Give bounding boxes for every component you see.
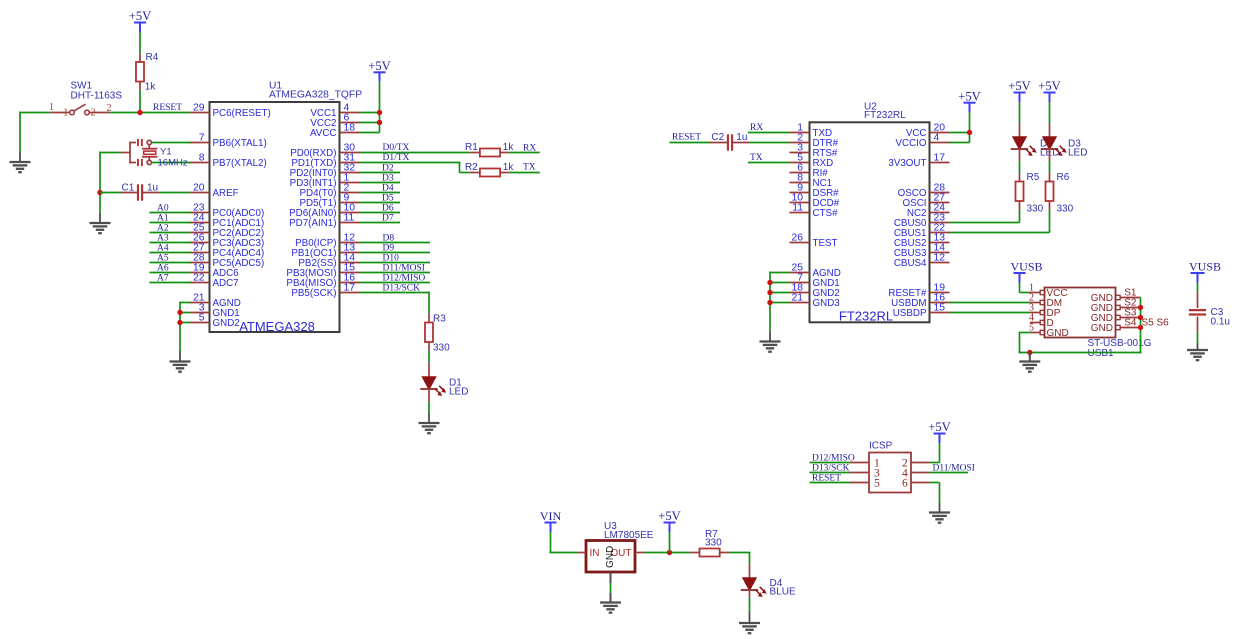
svg-text:8: 8 (199, 153, 205, 164)
svg-text:22: 22 (193, 273, 205, 284)
svg-text:S5 S6: S5 S6 (1142, 318, 1170, 329)
svg-text:330: 330 (1057, 204, 1074, 215)
svg-text:2: 2 (91, 108, 96, 119)
svg-text:D7: D7 (382, 213, 394, 223)
svg-text:C1: C1 (122, 182, 135, 193)
svg-text:AVCC: AVCC (310, 128, 337, 139)
svg-text:USBDP: USBDP (893, 308, 927, 319)
svg-text:20: 20 (193, 183, 205, 194)
svg-text:D11/MOSI: D11/MOSI (383, 263, 425, 273)
svg-text:26: 26 (791, 233, 803, 244)
svg-text:ADC7: ADC7 (213, 278, 239, 289)
svg-text:RESET: RESET (153, 103, 182, 113)
svg-text:D6: D6 (382, 203, 394, 213)
svg-text:D12/MISO: D12/MISO (383, 273, 426, 283)
svg-text:PD7(AIN1): PD7(AIN1) (289, 218, 336, 229)
svg-text:R6: R6 (1057, 172, 1070, 183)
svg-text:+5V: +5V (928, 420, 951, 434)
svg-text:16MHz: 16MHz (158, 158, 188, 169)
svg-text:LED: LED (449, 387, 468, 398)
svg-text:LM7805EE: LM7805EE (604, 530, 654, 541)
svg-text:D8: D8 (383, 233, 395, 243)
svg-text:0.1u: 0.1u (1211, 317, 1230, 328)
svg-text:LED: LED (1068, 148, 1087, 159)
svg-text:RX: RX (523, 144, 536, 154)
svg-text:21: 21 (791, 293, 803, 304)
svg-text:D13/SCK: D13/SCK (383, 283, 421, 293)
svg-text:ICSP: ICSP (869, 441, 893, 452)
svg-text:C2: C2 (711, 132, 724, 143)
svg-text:GND3: GND3 (813, 298, 841, 309)
svg-text:D0/TX: D0/TX (383, 143, 410, 153)
svg-text:R1: R1 (465, 142, 478, 153)
svg-text:D11/MOSI: D11/MOSI (933, 463, 975, 473)
svg-text:A4: A4 (157, 243, 169, 253)
svg-text:+5V: +5V (958, 89, 981, 103)
svg-text:4: 4 (934, 133, 940, 144)
svg-text:ATMEGA328_TQFP: ATMEGA328_TQFP (269, 90, 362, 101)
svg-text:A5: A5 (157, 253, 169, 263)
svg-text:D3: D3 (382, 173, 394, 183)
svg-text:S4: S4 (1124, 318, 1137, 329)
svg-text:1k: 1k (503, 162, 515, 173)
svg-text:D13/SCK: D13/SCK (812, 463, 850, 473)
svg-text:330: 330 (705, 538, 722, 549)
svg-text:TX: TX (523, 163, 536, 173)
svg-text:A1: A1 (157, 213, 169, 223)
svg-text:VUSB: VUSB (1189, 260, 1221, 274)
svg-text:1: 1 (49, 102, 54, 113)
svg-text:PB7(XTAL2): PB7(XTAL2) (213, 158, 267, 169)
svg-text:VUSB: VUSB (1010, 260, 1042, 274)
svg-text:VIN: VIN (540, 509, 562, 523)
svg-text:RX: RX (750, 123, 763, 133)
svg-text:D12/MISO: D12/MISO (812, 453, 855, 463)
svg-text:PC6(RESET): PC6(RESET) (213, 108, 271, 119)
svg-text:USB1: USB1 (1088, 348, 1115, 359)
svg-text:CTS#: CTS# (813, 208, 839, 219)
svg-text:3V3OUT: 3V3OUT (888, 158, 926, 169)
svg-text:PB5(SCK): PB5(SCK) (291, 288, 336, 299)
svg-text:A2: A2 (157, 223, 169, 233)
svg-text:+5V: +5V (1008, 79, 1031, 93)
svg-text:29: 29 (193, 103, 205, 114)
svg-text:VCCIO: VCCIO (895, 138, 926, 149)
svg-text:PB6(XTAL1): PB6(XTAL1) (213, 138, 267, 149)
svg-text:17: 17 (934, 153, 946, 164)
svg-text:Y1: Y1 (160, 147, 172, 158)
svg-text:11: 11 (344, 213, 355, 224)
svg-text:A0: A0 (157, 203, 169, 213)
svg-text:D2: D2 (382, 163, 394, 173)
svg-text:GND: GND (1047, 328, 1069, 339)
svg-text:7: 7 (199, 133, 205, 144)
svg-text:A3: A3 (157, 233, 169, 243)
svg-text:RESET: RESET (812, 473, 841, 483)
svg-text:+5V: +5V (129, 9, 152, 23)
svg-text:330: 330 (433, 343, 450, 354)
svg-text:D5: D5 (382, 193, 394, 203)
svg-text:IN: IN (590, 548, 600, 559)
svg-text:D10: D10 (383, 253, 400, 263)
svg-text:A6: A6 (157, 263, 169, 273)
svg-text:GND: GND (605, 546, 616, 568)
svg-text:D9: D9 (383, 243, 395, 253)
svg-text:A7: A7 (157, 273, 169, 283)
svg-text:12: 12 (934, 253, 946, 264)
svg-text:TEST: TEST (813, 238, 838, 249)
svg-text:R5: R5 (1027, 172, 1040, 183)
svg-text:TX: TX (750, 153, 763, 163)
svg-text:+5V: +5V (658, 509, 681, 523)
svg-text:2: 2 (107, 103, 112, 114)
svg-text:DHT-1163S: DHT-1163S (71, 91, 123, 102)
svg-text:R4: R4 (146, 52, 159, 63)
svg-text:FT232RL: FT232RL (864, 110, 906, 121)
svg-text:1u: 1u (147, 182, 158, 193)
svg-text:D4: D4 (382, 183, 394, 193)
svg-text:BLUE: BLUE (770, 587, 796, 598)
svg-text:ATMEGA328: ATMEGA328 (239, 319, 315, 334)
svg-text:5: 5 (199, 313, 205, 324)
svg-text:6: 6 (902, 478, 908, 490)
svg-text:R2: R2 (465, 162, 478, 173)
svg-text:RESET: RESET (672, 133, 701, 143)
svg-text:11: 11 (792, 203, 803, 214)
svg-text:1k: 1k (145, 81, 157, 92)
svg-text:+5V: +5V (368, 59, 391, 73)
svg-text:CBUS4: CBUS4 (894, 258, 927, 269)
svg-text:18: 18 (344, 123, 356, 134)
svg-text:+5V: +5V (1038, 79, 1061, 93)
svg-text:1: 1 (63, 108, 68, 119)
svg-text:D1/TX: D1/TX (383, 153, 410, 163)
svg-text:15: 15 (934, 303, 946, 314)
svg-text:GND: GND (1091, 323, 1113, 334)
svg-text:17: 17 (344, 283, 356, 294)
svg-text:GND2: GND2 (213, 318, 240, 329)
svg-text:330: 330 (1027, 204, 1044, 215)
svg-text:5: 5 (874, 478, 880, 490)
svg-text:R3: R3 (433, 314, 446, 325)
svg-text:1u: 1u (736, 132, 747, 143)
svg-text:1k: 1k (503, 142, 515, 153)
svg-text:FT232RL: FT232RL (839, 309, 893, 324)
svg-text:AREF: AREF (213, 188, 239, 199)
